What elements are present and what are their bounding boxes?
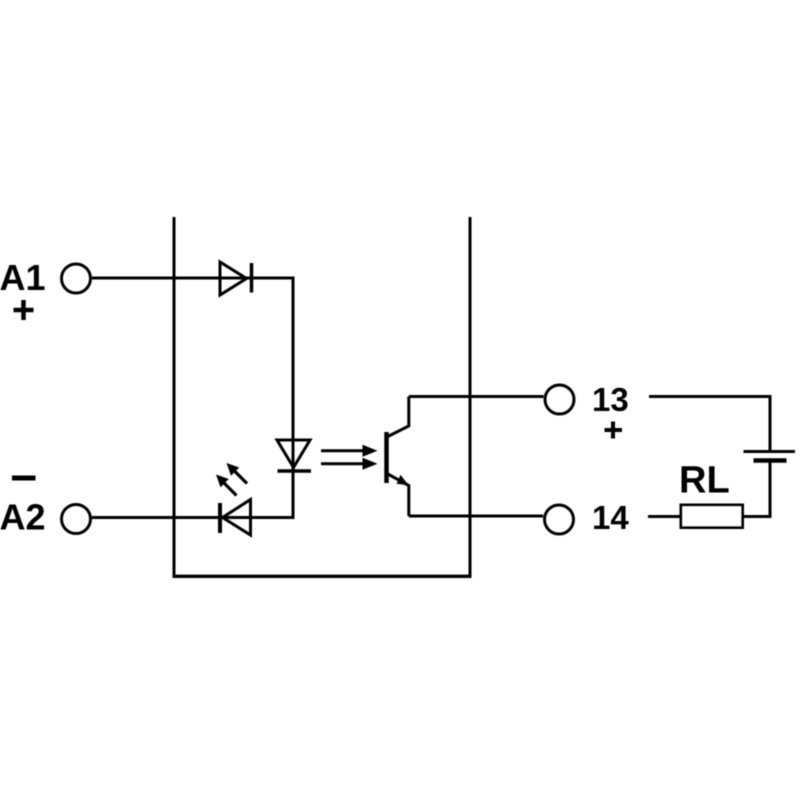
terminal 13 xyxy=(545,385,574,414)
wire collector to terminal 13 xyxy=(409,395,544,398)
plus sign at A1 xyxy=(14,300,34,320)
indicator LED D3 xyxy=(220,500,251,536)
resistor RL xyxy=(681,505,743,528)
wire 13 to battery xyxy=(649,397,772,451)
svg-text:13: 13 xyxy=(592,381,629,418)
terminal A2 xyxy=(62,505,91,534)
diode D1 xyxy=(220,262,252,295)
wire A1 to corner xyxy=(92,277,295,280)
indicator LED emission arrows xyxy=(216,463,247,496)
svg-text:14: 14 xyxy=(592,499,629,536)
terminal A1 xyxy=(62,264,91,293)
wire resistor to terminal 14 xyxy=(648,515,681,518)
phototransistor Q1 xyxy=(387,397,409,517)
wire A2 to junction xyxy=(92,516,295,519)
wire battery to resistor xyxy=(744,463,772,518)
terminal 14 xyxy=(545,505,574,534)
wire vertical to LED xyxy=(292,277,295,518)
optocoupler LED D2 xyxy=(277,440,311,471)
battery BT1 xyxy=(744,452,796,461)
plus sign at 13 xyxy=(605,422,623,439)
svg-text:RL: RL xyxy=(679,460,730,502)
svg-text:A1: A1 xyxy=(0,257,46,298)
module outline xyxy=(173,217,472,578)
optocoupler light arrows xyxy=(321,445,378,470)
wire emitter to terminal 14 xyxy=(409,515,543,518)
svg-text:A2: A2 xyxy=(0,497,46,538)
minus sign at A2 xyxy=(12,476,36,481)
